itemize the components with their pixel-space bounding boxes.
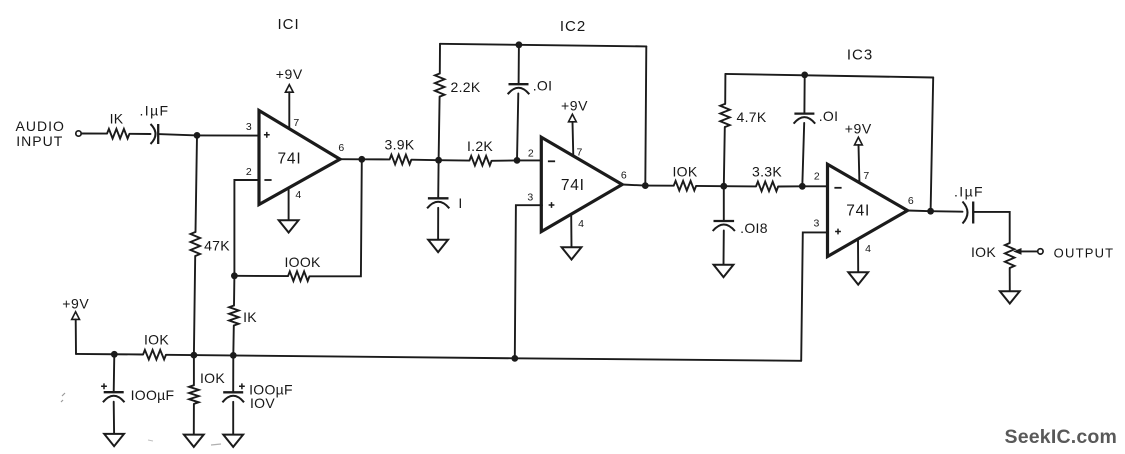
pin 2 label (IC1) bbox=[246, 166, 252, 178]
label OUTPUT bbox=[1054, 245, 1115, 260]
svg-text:7: 7 bbox=[863, 170, 869, 182]
label 10K (divider) bbox=[200, 370, 225, 386]
resistor 100K (feedback IC1) bbox=[288, 271, 310, 281]
svg-text:3: 3 bbox=[527, 192, 533, 204]
pin 3 label (IC1) bbox=[246, 121, 252, 133]
label 1K (bias) bbox=[243, 309, 257, 325]
label 10K (interstage) bbox=[672, 164, 697, 180]
wire: C .1uF to node A bbox=[158, 134, 197, 135]
svg-text:.OI8: .OI8 bbox=[740, 220, 768, 236]
plus input mark (IC3) bbox=[835, 229, 841, 235]
wire: pot to ground bbox=[1009, 268, 1011, 291]
wire: R 1.2K to node E bbox=[492, 159, 517, 161]
svg-text:I: I bbox=[458, 195, 462, 211]
svg-text:IOOK: IOOK bbox=[284, 254, 321, 270]
label 741 (IC1) bbox=[278, 150, 302, 167]
wire: top wire down to R 4.7K bbox=[724, 74, 726, 104]
ground (C .018) bbox=[714, 265, 734, 277]
svg-text:4: 4 bbox=[578, 218, 584, 230]
wire: node L to C 100uF bbox=[113, 354, 116, 392]
svg-text:2: 2 bbox=[814, 171, 820, 183]
node: AUDIO INPUT label bbox=[16, 118, 65, 149]
capacitor .1uF (output coupling) bbox=[963, 202, 974, 224]
svg-text:3.9K: 3.9K bbox=[385, 136, 415, 152]
wire: node C to R 100K bbox=[234, 275, 288, 277]
plus mark (C 100uF 10V) bbox=[239, 383, 245, 389]
op-amp IC1 label bbox=[278, 16, 300, 33]
capacitor .01 (IC2) bbox=[508, 84, 530, 94]
wire: IC2 output to node G bbox=[622, 185, 645, 186]
wire: IC3 output to node K bbox=[908, 210, 931, 213]
wire: R 2.2K to node D bbox=[439, 97, 440, 161]
svg-text:.IµF: .IµF bbox=[140, 103, 170, 119]
svg-text:INPUT: INPUT bbox=[16, 133, 63, 149]
svg-text:6: 6 bbox=[621, 170, 627, 182]
pin 4 label (IC2) bbox=[578, 218, 584, 230]
capacitor .1uF (input coupling) bbox=[151, 124, 159, 144]
resistor 10K (bias divider) bbox=[189, 385, 199, 404]
node I junction (IC3 pin 2) bbox=[799, 183, 806, 190]
svg-text:IOK: IOK bbox=[200, 370, 225, 386]
svg-text:6: 6 bbox=[908, 195, 914, 207]
wire: top wire down to R 2.2K bbox=[439, 44, 441, 74]
wire: rail left segment bbox=[76, 353, 143, 356]
label +9V (IC2 supply) bbox=[561, 98, 588, 114]
minus input mark (IC3) bbox=[834, 187, 841, 189]
svg-text:7: 7 bbox=[293, 117, 299, 129]
watermark SeekIC.com bbox=[61, 393, 1117, 448]
wire: R 3.3K to node I bbox=[778, 185, 802, 187]
ground (IC3 pin 4) bbox=[848, 272, 868, 284]
wire: C 100uF 10V to ground bbox=[232, 402, 234, 435]
node A junction bbox=[194, 132, 201, 139]
wire: IC3 pin 3 to rail bbox=[801, 232, 828, 360]
wire: node G to R 10K bbox=[645, 185, 673, 187]
label 47K bbox=[204, 238, 230, 254]
node L junction (rail filter) bbox=[111, 351, 118, 358]
wire: input terminal to R 1K bbox=[81, 133, 107, 135]
wire: node F down to C .01 (IC2) bbox=[518, 45, 520, 84]
label 3.9K bbox=[385, 136, 415, 152]
wire: node N down to C 100uF 10V bbox=[232, 355, 234, 392]
node B junction (IC1 output) bbox=[358, 156, 365, 163]
capacitor 100uF 10V (bias bypass) bbox=[222, 392, 244, 402]
ground (C 100uF left) bbox=[104, 434, 124, 446]
label 2.2K bbox=[451, 79, 481, 95]
svg-text:IC2: IC2 bbox=[560, 18, 586, 35]
op-amp IC2 label bbox=[560, 18, 586, 35]
pin 4 label (IC3) bbox=[865, 243, 871, 255]
minus input mark (IC2) bbox=[548, 160, 555, 162]
svg-text:SeekIC.com: SeekIC.com bbox=[1005, 426, 1118, 448]
wire: IC3 pin 4 to ground bbox=[857, 240, 859, 272]
pin 2 label (IC2) bbox=[528, 148, 534, 160]
svg-text:3: 3 bbox=[814, 217, 820, 229]
pin 4 label (IC1) bbox=[295, 189, 301, 201]
pin 6 label (IC1) bbox=[338, 142, 344, 154]
pin 6 label (IC3) bbox=[908, 195, 914, 207]
svg-text:6: 6 bbox=[338, 142, 344, 154]
wire: C .01 to node I bbox=[802, 123, 804, 186]
node J junction (top wire IC3) bbox=[801, 72, 808, 79]
svg-text:IK: IK bbox=[110, 111, 124, 127]
wire: node H down to C .018 bbox=[723, 186, 725, 221]
resistor 3.3K bbox=[756, 182, 778, 192]
op-amp IC1 (741) bbox=[259, 111, 340, 205]
resistor 3.9K bbox=[390, 155, 412, 165]
label .018 bbox=[740, 220, 768, 236]
wire: +9V arrow to IC2 pin 7 bbox=[572, 122, 575, 156]
label 100K bbox=[284, 254, 321, 270]
wire: R 1K to C .1uF bbox=[130, 133, 151, 135]
svg-text:IK: IK bbox=[243, 309, 257, 325]
+9V arrow (IC1) bbox=[285, 85, 293, 93]
node D junction bbox=[435, 157, 442, 164]
node M junction (rail 47K) bbox=[191, 352, 198, 359]
label +9V (rail supply) bbox=[62, 296, 89, 312]
wire: +9V arrow down to rail bbox=[75, 319, 77, 354]
node O junction (rail IC2 pin3) bbox=[511, 355, 518, 362]
label 3.3K bbox=[752, 164, 782, 180]
wire: R 100K to IC1 output bbox=[310, 159, 362, 276]
svg-text:AUDIO: AUDIO bbox=[16, 118, 65, 134]
capacitor 1 (to ground) bbox=[427, 198, 449, 208]
svg-text:IOK: IOK bbox=[672, 164, 697, 180]
label 10V bbox=[250, 395, 275, 411]
pin 7 label (IC3) bbox=[863, 170, 869, 182]
wire: IC1 pin 4 to ground bbox=[288, 188, 290, 220]
svg-text:74I: 74I bbox=[846, 203, 870, 220]
wire: R 10K to node H bbox=[696, 185, 724, 187]
svg-text:3: 3 bbox=[246, 121, 252, 133]
svg-text:IOOµF: IOOµF bbox=[131, 387, 175, 403]
node H junction bbox=[720, 183, 727, 190]
wire: node B to R 3.9K bbox=[362, 158, 390, 160]
wire: R 3.9K to node D bbox=[411, 159, 438, 162]
label 4.7K bbox=[737, 109, 767, 125]
label 741 (IC3) bbox=[846, 203, 870, 220]
minus input mark (IC1) bbox=[264, 179, 271, 181]
pin 3 label (IC2) bbox=[527, 192, 533, 204]
wire: R 10K divider to ground bbox=[193, 404, 195, 435]
wire: node K up to top feedback bbox=[931, 78, 934, 212]
label 100uF (right) bbox=[249, 382, 293, 398]
svg-text:4: 4 bbox=[295, 189, 301, 201]
node K junction (IC3 output) bbox=[927, 208, 934, 215]
wire: R 4.7K to node H bbox=[724, 127, 725, 186]
svg-text:I.2K: I.2K bbox=[467, 138, 493, 154]
resistor 47K bbox=[191, 232, 201, 256]
ground (IC2 pin 4) bbox=[562, 247, 582, 259]
label 1K bbox=[110, 111, 124, 127]
potentiometer 10K (output level) bbox=[1005, 243, 1015, 268]
wire: rail main segment bbox=[166, 355, 801, 361]
svg-text:OUTPUT: OUTPUT bbox=[1054, 245, 1115, 260]
svg-text:IOK: IOK bbox=[144, 332, 169, 348]
output terminal bbox=[1038, 249, 1043, 254]
wire: IC3 top feedback bbox=[725, 74, 933, 78]
wire: node J down to C .01 (IC3) bbox=[803, 75, 805, 114]
resistor 1K (series input) bbox=[107, 129, 130, 139]
plus input mark (IC2) bbox=[549, 202, 555, 208]
wire: R 47K to ground rail bbox=[194, 256, 195, 355]
svg-text:.OI: .OI bbox=[819, 108, 839, 124]
svg-text:2: 2 bbox=[246, 166, 252, 178]
ground (R 10K divider) bbox=[184, 435, 204, 447]
svg-text:74I: 74I bbox=[561, 177, 585, 194]
label .01 (IC2) bbox=[533, 78, 553, 94]
svg-text:.OI: .OI bbox=[533, 78, 553, 94]
svg-text:2: 2 bbox=[528, 148, 534, 160]
capacitor 100uF (rail bypass) bbox=[103, 392, 125, 402]
svg-text:4.7K: 4.7K bbox=[737, 109, 767, 125]
svg-text:IOV: IOV bbox=[250, 395, 275, 411]
label .1uF (output) bbox=[954, 184, 984, 200]
wire: +9V arrow to IC1 pin 7 bbox=[288, 92, 290, 128]
pin 7 label (IC2) bbox=[577, 147, 583, 159]
op-amp IC3 label bbox=[847, 47, 873, 64]
svg-text:7: 7 bbox=[577, 147, 583, 159]
wire: R 1K to rail bbox=[232, 326, 235, 356]
svg-text:47K: 47K bbox=[204, 238, 230, 254]
node C junction (inverting network) bbox=[231, 272, 238, 279]
resistor 1.2K bbox=[469, 156, 491, 166]
label +9V (IC3 supply) bbox=[845, 121, 872, 137]
svg-text:IC3: IC3 bbox=[847, 47, 873, 64]
label 1.2K bbox=[467, 138, 493, 154]
svg-text:ICI: ICI bbox=[278, 16, 300, 33]
capacitor .018 (to ground) bbox=[713, 221, 735, 231]
capacitor .01 (IC3) bbox=[794, 114, 816, 124]
wire: node D to R 1.2K bbox=[439, 159, 470, 161]
op-amp IC3 (741) bbox=[828, 164, 908, 256]
pin 3 label (IC3) bbox=[814, 217, 820, 229]
wire: IC2 pin 4 to ground bbox=[570, 215, 572, 248]
wire: node E to IC2 pin 2 bbox=[517, 159, 542, 161]
resistor 4.7K bbox=[720, 104, 730, 127]
wire: C .018 to ground bbox=[723, 231, 725, 265]
+9V arrow (rail) bbox=[72, 312, 80, 320]
label 100uF (left) bbox=[131, 387, 175, 403]
plus input mark (IC1) bbox=[264, 132, 270, 138]
node N junction (rail 1K) bbox=[230, 352, 237, 359]
wire: node I to IC3 pin 2 bbox=[802, 185, 828, 187]
node F junction (top wire IC2) bbox=[516, 41, 523, 48]
resistor 2.2K bbox=[435, 74, 445, 97]
wire: node K to C .1uF out bbox=[931, 210, 963, 213]
+9V arrow (IC2) bbox=[569, 114, 577, 122]
+9V arrow (IC3) bbox=[855, 137, 863, 145]
pin 7 label (IC1) bbox=[293, 117, 299, 129]
label 1 (capacitor) bbox=[458, 195, 462, 211]
wire: C .1uF to pot 10K bbox=[973, 212, 1010, 243]
wire: node H to R 3.3K bbox=[724, 185, 756, 187]
svg-text:74I: 74I bbox=[278, 150, 302, 167]
plus mark (C 100uF left) bbox=[101, 383, 107, 389]
svg-text:4: 4 bbox=[865, 243, 871, 255]
op-amp IC2 (741) bbox=[541, 137, 622, 231]
wire: C .01 to node E bbox=[517, 94, 518, 161]
wire: C 100uF to ground bbox=[113, 402, 115, 434]
resistor 10K (rail series) bbox=[143, 350, 166, 360]
svg-text:+9V: +9V bbox=[561, 98, 588, 114]
svg-text:.IµF: .IµF bbox=[954, 184, 984, 200]
resistor 1K (to bias rail) bbox=[229, 306, 239, 326]
wire: +9V arrow to IC3 pin 7 bbox=[858, 145, 861, 182]
pin 2 label (IC3) bbox=[814, 171, 820, 183]
pot wiper arrow bbox=[1013, 248, 1037, 255]
svg-text:+9V: +9V bbox=[62, 296, 89, 312]
wire: node M down to R 10K bbox=[193, 355, 195, 385]
svg-text:3.3K: 3.3K bbox=[752, 164, 782, 180]
label .1uF bbox=[140, 103, 170, 119]
resistor 10K (interstage) bbox=[674, 181, 697, 191]
wire: node A to IC1 pin 3 bbox=[197, 134, 260, 136]
ground (C 1) bbox=[428, 240, 448, 252]
node G junction (IC2 output) bbox=[642, 182, 649, 189]
svg-text:+9V: +9V bbox=[845, 121, 872, 137]
pin 6 label (IC2) bbox=[621, 170, 627, 182]
wire: C 1 to ground bbox=[437, 208, 439, 240]
wire: IC1 pin 2 stub bbox=[234, 180, 259, 276]
svg-text:IOK: IOK bbox=[971, 244, 996, 260]
ground (IC1 pin 4) bbox=[279, 220, 299, 232]
ground (C 100uF 10V) bbox=[223, 435, 243, 447]
wire: node D down to C 1 bbox=[437, 160, 439, 198]
node E junction (IC2 pin 2) bbox=[514, 157, 521, 164]
label +9V (IC1 supply) bbox=[276, 66, 303, 82]
wire: node C to R 1K lower bbox=[233, 276, 235, 306]
svg-text:2.2K: 2.2K bbox=[451, 79, 481, 95]
label 10K (pot) bbox=[971, 244, 996, 260]
ground (pot) bbox=[1000, 291, 1020, 303]
input terminal bbox=[76, 131, 81, 136]
wire: node A down to R 47K bbox=[196, 135, 198, 232]
wire: IC2 top feedback bbox=[440, 44, 646, 47]
wire: IC1 output to node B bbox=[340, 158, 362, 160]
svg-text:+9V: +9V bbox=[276, 66, 303, 82]
label .01 (IC3) bbox=[819, 108, 839, 124]
label 10K (rail) bbox=[144, 332, 169, 348]
wire: IC2 pin 3 to rail bbox=[515, 205, 542, 358]
label 741 (IC2) bbox=[561, 177, 585, 194]
wire: node G up to top feedback bbox=[645, 46, 646, 185]
